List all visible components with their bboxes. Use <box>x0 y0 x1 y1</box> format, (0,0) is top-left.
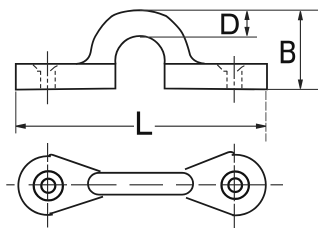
tangent line top-right <box>185 152 234 169</box>
dimension D extension line top <box>140 9 318 11</box>
left hole hidden lines <box>33 65 58 89</box>
label B <box>281 41 296 64</box>
loop outer arc <box>77 10 205 64</box>
dimension B arrow <box>299 11 303 88</box>
center stadium <box>88 173 193 195</box>
left eye countersink circle <box>34 171 63 200</box>
left eye outer arc <box>18 156 52 215</box>
dimension D extension line bottom <box>140 36 257 38</box>
dimension L extension line left <box>15 92 17 134</box>
right eye countersink circle <box>222 172 249 199</box>
tangent line top-left <box>49 155 101 172</box>
dimension D arrow <box>245 11 249 35</box>
label D <box>221 14 239 35</box>
left eye vertical centerline <box>47 143 49 228</box>
side view left plate <box>16 64 116 90</box>
right eye outer arc <box>232 155 266 216</box>
horizontal centerline bottom view <box>6 184 283 186</box>
left eye hole circle <box>41 179 55 193</box>
dimension L line <box>16 124 266 128</box>
bottom view outline <box>18 152 265 215</box>
right eye hole circle <box>228 178 242 192</box>
loop inner arc <box>115 36 164 64</box>
dimension B extension line bottom <box>267 88 318 90</box>
left hole centerline (side view) <box>47 51 49 104</box>
label L <box>137 112 152 135</box>
tangent line bottom-right <box>186 198 235 216</box>
tangent line bottom-left <box>49 197 103 214</box>
dimension L extension line right <box>265 91 267 142</box>
right eye vertical centerline <box>233 144 235 228</box>
side view right plate <box>165 64 267 90</box>
right hole hidden lines <box>217 65 244 89</box>
right hole centerline (side view) <box>233 56 235 103</box>
